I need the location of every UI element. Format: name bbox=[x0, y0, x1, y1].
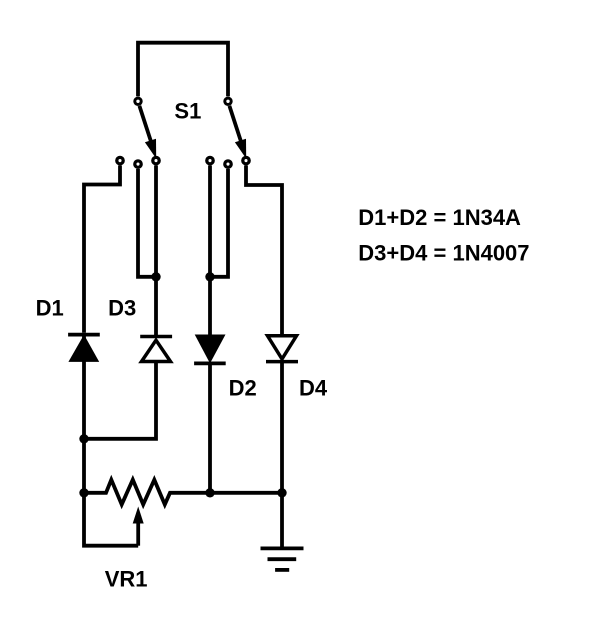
wire: contact 2 down to node at D3 anode branch bbox=[138, 169, 154, 277]
wire: D2 cathode down to VR1 wiper rail bbox=[208, 363, 212, 492]
diode D2 body (filled, pointing down) bbox=[195, 335, 226, 364]
wire: top bar joining S1 pole leads bbox=[138, 43, 228, 97]
diode D4 anode bar bbox=[266, 360, 298, 364]
diode D2 anode bar bbox=[194, 361, 226, 365]
svg-text:D1: D1 bbox=[36, 295, 64, 320]
ground symbol bar 2 bbox=[268, 557, 297, 561]
svg-text:D1+D2 = 1N34A: D1+D2 = 1N34A bbox=[358, 205, 521, 230]
switch S1 contact 6 bbox=[243, 157, 249, 163]
node: junction of contact 2 and contact 3 branch bbox=[151, 272, 160, 281]
wire: contact 3 down to D3 cathode bbox=[154, 165, 158, 335]
switch S1 contact 3 bbox=[153, 157, 159, 163]
switch S1 pole B terminal bbox=[225, 98, 231, 104]
switch S1 pole B arrowhead bbox=[235, 139, 246, 159]
diode D3 cathode bar bbox=[140, 335, 172, 339]
wire: contact 1 down and left to D1 branch bbox=[84, 165, 120, 332]
wire: contact 5 down to node at D2 branch bbox=[212, 169, 228, 277]
diode D3 body (open, pointing up) bbox=[142, 340, 171, 361]
switch S1 pole B actuator arm bbox=[229, 106, 241, 142]
node: VR1 left terminal bbox=[79, 488, 88, 497]
switch S1 pole A arrowhead bbox=[145, 139, 156, 159]
wire: D1 anode down through lower junctions bbox=[84, 335, 138, 546]
node: D4/ground junction on bottom rail bbox=[277, 488, 286, 497]
node A: D1/D3 anode junction bbox=[79, 434, 88, 443]
node: junction of contact 4 and contact 5 branch bbox=[205, 272, 214, 281]
switch S1 pole A terminal bbox=[135, 98, 141, 104]
potentiometer VR1 resistive element bbox=[84, 480, 282, 505]
svg-text:VR1: VR1 bbox=[105, 567, 148, 592]
wire: D4 down to bottom rail bbox=[280, 362, 284, 493]
svg-text:D4: D4 bbox=[299, 375, 328, 400]
VR1 wiper arrowhead bbox=[133, 507, 144, 524]
svg-text:D3: D3 bbox=[108, 295, 136, 320]
switch S1 contact 1 bbox=[117, 157, 123, 163]
switch S1 contact 4 bbox=[207, 157, 213, 163]
diode D1 body (filled, pointing up) bbox=[68, 335, 99, 362]
switch S1 contact 2 bbox=[135, 161, 141, 167]
ground symbol bar 3 bbox=[275, 568, 289, 572]
svg-text:D2: D2 bbox=[229, 375, 257, 400]
wire: contact 4 down to D2 anode bbox=[208, 165, 212, 336]
wire: ground lead bbox=[280, 493, 284, 549]
wire: D3 anode down and left to node A bbox=[84, 362, 156, 439]
ground symbol bar 1 bbox=[261, 547, 304, 551]
wire: contact 6 down and right to D4 branch bbox=[246, 165, 282, 334]
diode D1 cathode bar bbox=[68, 333, 100, 337]
switch S1 contact 5 bbox=[225, 161, 231, 167]
svg-text:S1: S1 bbox=[174, 99, 201, 124]
node: D2 junction on bottom rail bbox=[205, 488, 214, 497]
svg-text:D3+D4 = 1N4007: D3+D4 = 1N4007 bbox=[358, 241, 529, 266]
VR1 wiper shaft bbox=[136, 522, 140, 546]
switch S1 pole A actuator arm bbox=[139, 106, 151, 142]
diode D4 body (open, pointing down) bbox=[268, 336, 297, 359]
